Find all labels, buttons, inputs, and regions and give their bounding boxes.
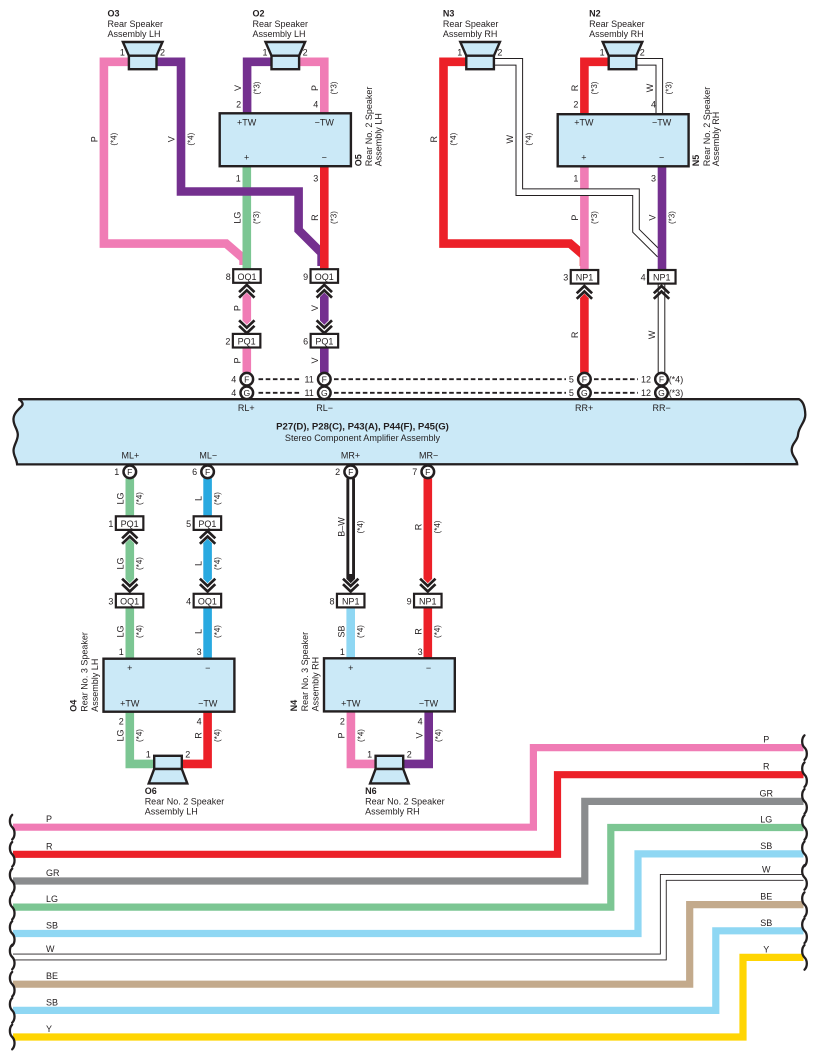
svg-text:+TW: +TW xyxy=(237,117,257,127)
svg-text:(*4): (*4) xyxy=(135,492,144,505)
svg-text:(*4): (*4) xyxy=(213,729,222,742)
pin 2 of N3 xyxy=(497,47,502,57)
svg-text:Assembly LH: Assembly LH xyxy=(90,659,100,712)
label wire color B&#8211;W xyxy=(336,517,346,537)
pin 1 of O4 xyxy=(119,647,124,657)
svg-text:8: 8 xyxy=(226,272,231,282)
svg-text:Assembly LH: Assembly LH xyxy=(108,29,161,39)
svg-text:R: R xyxy=(310,214,320,221)
svg-text:+: + xyxy=(348,663,353,673)
svg-text:OQ1: OQ1 xyxy=(315,272,334,282)
pin 4 of N4 xyxy=(418,717,423,727)
break mark right break W xyxy=(802,865,807,890)
svg-text:LG: LG xyxy=(116,557,126,569)
connector OQ1 pin 9 xyxy=(303,269,338,283)
wire L OQ1-4 to O4 - xyxy=(203,600,212,662)
break mark right break SB xyxy=(802,842,807,867)
wire P OQ1-8 to PQ1-2 xyxy=(243,293,252,325)
svg-text:6: 6 xyxy=(303,337,308,347)
svg-text:4: 4 xyxy=(231,375,236,385)
connector arrow above OQ1-4 xyxy=(200,579,215,592)
dashed link F row 11-5 xyxy=(334,378,566,380)
label harness SB left xyxy=(46,997,58,1007)
node G11 xyxy=(304,387,330,400)
svg-text:(*3): (*3) xyxy=(253,81,262,94)
svg-text:−TW: −TW xyxy=(652,117,672,127)
svg-text:O4: O4 xyxy=(68,700,78,712)
connector OQ1 pin 3 xyxy=(108,594,143,608)
label wire color V xyxy=(648,215,658,221)
label N2 xyxy=(589,8,645,39)
label wire color R xyxy=(414,628,424,635)
pin 1 of N2 xyxy=(600,47,605,57)
wire P from O3 pin1 to OQ1-8 xyxy=(104,62,244,265)
svg-text:7: 7 xyxy=(412,467,417,477)
label O6 xyxy=(145,786,225,817)
node F2 xyxy=(335,466,357,479)
wire R node F7 to NP1-9 xyxy=(423,478,432,574)
label note (*4) xyxy=(135,557,144,570)
svg-text:LG: LG xyxy=(233,212,243,224)
svg-text:4: 4 xyxy=(231,388,236,398)
label wire color R xyxy=(429,135,439,142)
wire R NP1-3 to node F5 xyxy=(580,294,589,373)
svg-text:O3: O3 xyxy=(108,8,120,18)
svg-text:4: 4 xyxy=(313,99,318,109)
wire LG node F1 to PQ1-1 xyxy=(126,478,135,522)
svg-text:2: 2 xyxy=(236,99,241,109)
wire R tip at NP1-9 xyxy=(424,574,433,583)
svg-text:8: 8 xyxy=(329,596,334,606)
dashed link G row 4-11 xyxy=(259,392,302,394)
label note (*4) xyxy=(213,557,222,570)
svg-text:(*3): (*3) xyxy=(590,81,599,94)
svg-text:11: 11 xyxy=(304,388,313,398)
label O5 (rotated) xyxy=(354,87,384,167)
svg-text:2: 2 xyxy=(407,749,412,759)
svg-text:R: R xyxy=(763,762,770,772)
svg-text:W: W xyxy=(647,330,657,339)
pin 1 of N5 xyxy=(573,174,578,184)
svg-text:P: P xyxy=(337,732,347,738)
label wire color W xyxy=(645,83,655,92)
wire L PQ1-5 to OQ1-4 xyxy=(203,539,212,583)
pin 4 of O5 xyxy=(313,99,318,109)
wire B-W tip at NP1-8 xyxy=(346,574,355,583)
wire P PQ1-2 to node F4 xyxy=(243,345,252,373)
wire LG PQ1-1 to OQ1-3 xyxy=(126,539,135,583)
svg-text:5: 5 xyxy=(569,375,574,385)
label wire color L xyxy=(193,561,203,566)
svg-text:(*4): (*4) xyxy=(213,557,222,570)
svg-text:Rear No. 3 Speaker: Rear No. 3 Speaker xyxy=(300,632,310,712)
svg-text:12: 12 xyxy=(641,388,651,398)
svg-text:P: P xyxy=(233,305,243,311)
pin 1 of N6 xyxy=(367,749,372,759)
label wire color P xyxy=(570,215,580,221)
label wire color R xyxy=(570,84,580,91)
label harness W right xyxy=(762,864,771,874)
svg-text:RR−: RR− xyxy=(652,403,670,413)
wire V from O3 pin2 to OQ1-9 xyxy=(157,62,322,266)
label harness P right xyxy=(763,735,769,745)
label note (*4) xyxy=(109,132,118,145)
label harness GR right xyxy=(760,788,774,798)
svg-text:ML−: ML− xyxy=(199,450,217,460)
svg-text:V: V xyxy=(233,85,243,91)
break mark left break P xyxy=(10,815,15,840)
svg-text:1: 1 xyxy=(236,174,241,184)
svg-text:(*4): (*4) xyxy=(186,132,195,145)
svg-text:−: − xyxy=(322,152,327,162)
wire harness LG #4 xyxy=(13,828,804,908)
svg-text:9: 9 xyxy=(303,272,308,282)
break mark left break R xyxy=(10,842,15,867)
wire harness R #2 xyxy=(13,775,804,855)
break mark right break P xyxy=(802,735,807,760)
svg-text:+: + xyxy=(581,152,586,162)
label wire color V xyxy=(233,85,243,91)
label wire color LG xyxy=(116,492,126,504)
svg-text:(*4): (*4) xyxy=(434,729,443,742)
svg-text:Stereo Component Amplifier Ass: Stereo Component Amplifier Assembly xyxy=(285,433,441,443)
label note (*4) xyxy=(356,625,365,638)
svg-text:BE: BE xyxy=(760,892,772,902)
wire harness W #6 xyxy=(13,877,804,957)
break mark left break W xyxy=(10,945,15,970)
break mark left break SB xyxy=(10,998,15,1023)
break mark right break SB xyxy=(802,919,807,944)
connector NP1 pin 4 xyxy=(641,270,676,284)
break mark right break GR xyxy=(802,789,807,814)
speaker N3 (Rear Speaker Assembly RH) xyxy=(460,42,500,69)
label harness BE left xyxy=(46,971,58,981)
svg-text:F: F xyxy=(348,467,353,477)
label N5 (rotated) xyxy=(691,87,721,167)
svg-text:F: F xyxy=(244,374,249,384)
connector NP1 pin 8 xyxy=(329,594,364,608)
connector arrow below NP1-3 xyxy=(577,286,592,299)
svg-text:2: 2 xyxy=(497,47,502,57)
label note (*3) xyxy=(590,211,599,224)
svg-text:Assembly RH: Assembly RH xyxy=(711,112,721,167)
svg-text:1: 1 xyxy=(573,174,578,184)
speaker O6 (Rear No. 2 Speaker Assembly LH) xyxy=(149,756,188,784)
connector arrow above PQ1-6 xyxy=(317,320,332,333)
label O4 (rotated) xyxy=(68,632,100,712)
svg-text:(*4): (*4) xyxy=(433,625,442,638)
break mark left break BE xyxy=(10,972,15,997)
svg-text:F: F xyxy=(322,374,327,384)
label harness GR left xyxy=(46,868,60,878)
pin 3 of O5 xyxy=(313,174,318,184)
label note (*4) xyxy=(356,520,365,533)
svg-text:O6: O6 xyxy=(145,786,157,796)
wire W from N3 pin2 to NP1-4 xyxy=(494,62,660,255)
wire harness SB #8 xyxy=(13,931,804,1011)
svg-text:RL−: RL− xyxy=(316,403,333,413)
svg-text:RR+: RR+ xyxy=(575,403,593,413)
label wire color V xyxy=(414,732,424,738)
label wire color LG xyxy=(233,212,243,224)
stereo component amplifier assembly band xyxy=(13,399,805,464)
svg-text:1: 1 xyxy=(262,47,267,57)
svg-text:(*3): (*3) xyxy=(590,211,599,224)
pin 1 of O6 xyxy=(146,749,151,759)
svg-text:5: 5 xyxy=(186,519,191,529)
pin 2 of N6 xyxy=(407,749,412,759)
svg-text:R: R xyxy=(193,732,203,739)
dashed link F row 5-12 xyxy=(594,378,638,380)
dashed link F row 4-11 xyxy=(259,378,302,380)
wire harness P #1 xyxy=(13,748,804,828)
svg-text:F: F xyxy=(582,374,587,384)
svg-text:3: 3 xyxy=(651,174,656,184)
svg-text:L: L xyxy=(193,496,203,501)
connector OQ1 pin 8 xyxy=(226,269,261,283)
node F5 xyxy=(569,373,591,386)
svg-text:P: P xyxy=(570,215,580,221)
label wire color L xyxy=(193,496,203,501)
pin 1 of O5 xyxy=(236,174,241,184)
svg-text:+: + xyxy=(127,663,132,673)
label N3 xyxy=(443,8,499,39)
svg-text:P: P xyxy=(46,814,52,824)
node G5 xyxy=(569,387,591,400)
label note (*3) xyxy=(665,81,674,94)
svg-text:P: P xyxy=(90,136,100,142)
connector arrow below PQ1-5 xyxy=(200,531,215,544)
svg-text:Rear Speaker: Rear Speaker xyxy=(253,19,309,29)
svg-text:LG: LG xyxy=(760,815,772,825)
label wire color P xyxy=(337,732,347,738)
svg-text:2: 2 xyxy=(225,337,230,347)
label harness R left xyxy=(46,841,53,851)
label harness P left xyxy=(46,814,52,824)
svg-text:(*4): (*4) xyxy=(135,557,144,570)
label wire color LG xyxy=(116,729,126,741)
label note (*4) xyxy=(525,132,534,145)
svg-text:R: R xyxy=(570,84,580,91)
label harness SB right xyxy=(760,918,772,928)
pin 2 of N2 xyxy=(640,47,645,57)
svg-text:1: 1 xyxy=(108,519,113,529)
connector PQ1 pin 6 xyxy=(303,334,338,348)
break mark right break LG xyxy=(802,815,807,840)
label wire color LG xyxy=(116,557,126,569)
wire LG OQ1-3 to O4 + xyxy=(126,600,135,662)
svg-text:Assembly LH: Assembly LH xyxy=(253,29,306,39)
label note (*3) xyxy=(590,81,599,94)
label note (*4) xyxy=(213,625,222,638)
svg-text:Assembly LH: Assembly LH xyxy=(374,113,384,166)
svg-text:PQ1: PQ1 xyxy=(238,337,256,347)
break mark left break Y xyxy=(10,1025,15,1050)
label N6 xyxy=(365,786,445,817)
wire R from N3 pin1 to NP1-3 xyxy=(444,62,585,266)
svg-text:5: 5 xyxy=(569,388,574,398)
svg-text:(*4): (*4) xyxy=(135,729,144,742)
wire R O4 -TW to O6 pin2 xyxy=(181,710,208,764)
svg-text:NP1: NP1 xyxy=(653,273,671,283)
svg-text:−: − xyxy=(426,663,431,673)
label wire color P xyxy=(90,136,100,142)
band title xyxy=(276,422,449,443)
svg-text:N3: N3 xyxy=(443,8,455,18)
break mark right break BE xyxy=(802,892,807,917)
svg-text:PQ1: PQ1 xyxy=(315,337,333,347)
svg-text:Rear No. 3 Speaker: Rear No. 3 Speaker xyxy=(79,632,89,712)
label harness SB right xyxy=(760,841,772,851)
pin 4 of O4 xyxy=(197,717,202,727)
wire harness SB #5 xyxy=(13,854,804,934)
label wire color L xyxy=(193,629,203,634)
node F11 xyxy=(304,373,330,386)
svg-text:(*3): (*3) xyxy=(330,211,339,224)
svg-text:Assembly RH: Assembly RH xyxy=(311,657,321,712)
svg-text:NP1: NP1 xyxy=(576,273,594,283)
node F12 xyxy=(641,373,683,386)
svg-text:OQ1: OQ1 xyxy=(120,596,139,606)
node F6 xyxy=(192,466,214,479)
svg-text:N6: N6 xyxy=(365,786,377,796)
svg-text:LG: LG xyxy=(116,492,126,504)
wire LG O4 +TW to O6 pin1 xyxy=(130,710,157,764)
svg-text:1: 1 xyxy=(120,47,125,57)
wire V PQ1-6 to node F11 xyxy=(320,345,329,373)
connector arrow above NP1-9 xyxy=(420,579,435,592)
speaker O3 (Rear Speaker Assembly LH) xyxy=(123,42,163,69)
svg-text:1: 1 xyxy=(340,647,345,657)
pin 3 of N4 xyxy=(418,647,423,657)
svg-text:Assembly RH: Assembly RH xyxy=(443,29,498,39)
svg-text:OQ1: OQ1 xyxy=(198,596,217,606)
svg-text:(*4): (*4) xyxy=(356,625,365,638)
svg-text:R: R xyxy=(414,523,424,530)
label note (*3) xyxy=(330,81,339,94)
svg-text:W: W xyxy=(505,134,515,143)
svg-text:3: 3 xyxy=(313,174,318,184)
svg-text:Rear Speaker: Rear Speaker xyxy=(443,19,499,29)
wire harness BE #7 xyxy=(13,905,804,985)
svg-text:V: V xyxy=(167,136,177,142)
pin 3 of O4 xyxy=(197,647,202,657)
svg-text:NP1: NP1 xyxy=(419,596,437,606)
svg-text:SB: SB xyxy=(336,625,346,637)
connector arrow below PQ1-1 xyxy=(122,531,137,544)
svg-text:L: L xyxy=(193,629,203,634)
label wire color P xyxy=(233,305,243,311)
wire P from O2 pin2 to O5 -TW xyxy=(299,62,324,118)
label harness SB left xyxy=(46,921,58,931)
svg-text:(*4): (*4) xyxy=(135,625,144,638)
pin 1 of N4 xyxy=(340,647,345,657)
svg-text:1: 1 xyxy=(457,47,462,57)
svg-text:Y: Y xyxy=(763,944,769,954)
svg-text:N4: N4 xyxy=(289,700,299,712)
label wire color R xyxy=(193,732,203,739)
svg-text:2: 2 xyxy=(335,467,340,477)
svg-text:(*3): (*3) xyxy=(330,81,339,94)
label wire color V xyxy=(167,136,177,142)
pin 2 of O5 xyxy=(236,99,241,109)
label wire color SB xyxy=(336,625,346,637)
connector arrow above PQ1-2 xyxy=(239,320,254,333)
wire harness Y #9 xyxy=(13,957,804,1037)
pin 2 of O3 xyxy=(160,47,165,57)
svg-text:3: 3 xyxy=(197,647,202,657)
connector NP1 pin 9 xyxy=(407,594,442,608)
svg-text:(*4): (*4) xyxy=(433,520,442,533)
svg-text:(*4): (*4) xyxy=(213,492,222,505)
svg-text:SB: SB xyxy=(46,921,58,931)
svg-text:3: 3 xyxy=(418,647,423,657)
svg-text:(*3): (*3) xyxy=(667,211,676,224)
svg-text:9: 9 xyxy=(407,596,412,606)
svg-text:SB: SB xyxy=(760,841,772,851)
svg-text:3: 3 xyxy=(108,596,113,606)
svg-text:G: G xyxy=(581,388,588,398)
svg-text:+TW: +TW xyxy=(120,698,140,708)
svg-text:(*4): (*4) xyxy=(669,375,684,385)
svg-text:(*4): (*4) xyxy=(449,132,458,145)
break mark right break Y xyxy=(802,945,807,970)
svg-text:1: 1 xyxy=(367,749,372,759)
wire SB NP1-8 to N4 + xyxy=(346,603,355,662)
svg-text:MR+: MR+ xyxy=(341,450,360,460)
label wire color R xyxy=(570,331,580,338)
label wire color P xyxy=(310,85,320,91)
svg-text:−TW: −TW xyxy=(198,698,218,708)
label wire color W xyxy=(647,330,657,339)
wire L node F6 to PQ1-5 xyxy=(203,478,212,522)
svg-text:RL+: RL+ xyxy=(238,403,255,413)
speaker O2 (Rear Speaker Assembly LH) xyxy=(266,42,306,69)
amplifier box N5 (Rear No. 2 Speaker Assembly RH) xyxy=(558,114,689,166)
speaker N2 (Rear Speaker Assembly RH) xyxy=(603,42,643,69)
svg-text:(*4): (*4) xyxy=(525,132,534,145)
svg-text:F: F xyxy=(425,467,430,477)
svg-text:V: V xyxy=(414,732,424,738)
svg-text:2: 2 xyxy=(573,99,578,109)
label note (*4) xyxy=(449,132,458,145)
pin 2 of O4 xyxy=(119,717,124,727)
connector arrow below OQ1-9 xyxy=(317,285,332,298)
svg-text:(*3): (*3) xyxy=(665,81,674,94)
svg-text:PQ1: PQ1 xyxy=(198,519,216,529)
svg-text:4: 4 xyxy=(186,596,191,606)
label note (*4) xyxy=(186,132,195,145)
svg-text:2: 2 xyxy=(185,749,190,759)
label note (*3) xyxy=(330,211,339,224)
pin 3 of N5 xyxy=(651,174,656,184)
connector NP1 pin 3 xyxy=(563,270,598,284)
wire R from N2 pin1 to N5 +TW xyxy=(584,62,609,118)
svg-text:2: 2 xyxy=(303,47,308,57)
svg-text:L: L xyxy=(193,561,203,566)
label N4 (rotated) xyxy=(289,632,321,712)
svg-text:P: P xyxy=(763,735,769,745)
svg-text:(*4): (*4) xyxy=(213,625,222,638)
svg-text:1: 1 xyxy=(119,647,124,657)
label note (*4) xyxy=(433,520,442,533)
svg-text:LG: LG xyxy=(46,894,58,904)
svg-text:G: G xyxy=(243,388,250,398)
svg-text:O2: O2 xyxy=(253,8,265,18)
label O3 xyxy=(108,8,164,39)
connector PQ1 pin 5 xyxy=(186,516,221,530)
svg-text:+: + xyxy=(244,152,249,162)
